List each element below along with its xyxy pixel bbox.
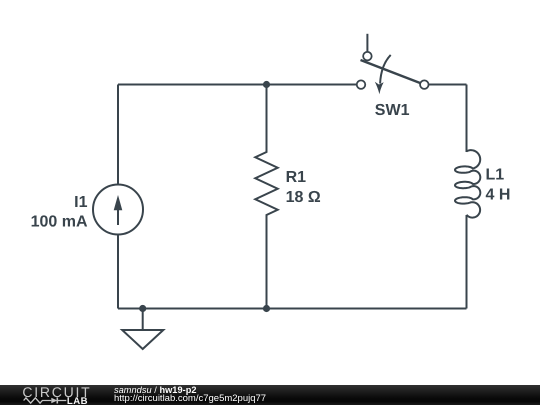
- logo resistor zigzag icon: [24, 398, 52, 403]
- switch SW1 stub: [366, 34, 368, 52]
- wire right vertical upper: [466, 85, 468, 153]
- svg-text:R1: R1: [286, 169, 307, 186]
- current source I1 circle: [93, 185, 143, 235]
- logo wire to LAB: [57, 400, 66, 402]
- logo diode triangle: [51, 398, 57, 404]
- svg-text:100 mA: 100 mA: [31, 214, 88, 231]
- svg-text:L1: L1: [486, 167, 505, 184]
- junction dot ground: [139, 305, 146, 312]
- wire switch right to corner: [429, 84, 467, 86]
- wire left vertical: [117, 85, 119, 309]
- svg-text:4 H: 4 H: [486, 187, 511, 204]
- footer bar: [0, 385, 540, 405]
- junction dot resistor bottom: [263, 305, 270, 312]
- svg-text:I1: I1: [74, 194, 87, 211]
- ground triangle: [122, 330, 163, 349]
- current source I1 arrowhead: [114, 195, 123, 210]
- inductor L1: [455, 150, 480, 217]
- switch SW1 motion arrowhead: [375, 82, 384, 94]
- svg-text:LAB: LAB: [67, 396, 88, 405]
- switch SW1 motion arc: [380, 55, 391, 84]
- logo diode cathode bar: [56, 398, 58, 404]
- switch SW1 terminal left: [357, 80, 366, 89]
- current source I1 arrow shaft: [117, 208, 119, 225]
- wire top horizontal: [118, 84, 357, 86]
- footer title text: [114, 384, 266, 404]
- CircuitLab logo: [18, 383, 102, 405]
- resistor R1: [255, 85, 277, 309]
- junction dot top: [263, 81, 270, 88]
- wire right vertical lower: [466, 215, 468, 309]
- switch SW1 terminal top: [363, 52, 372, 61]
- svg-text:SW1: SW1: [375, 102, 410, 119]
- ground wire: [142, 309, 144, 330]
- switch SW1 blade: [361, 60, 425, 85]
- switch SW1 terminal right: [420, 80, 429, 89]
- svg-text:18 Ω: 18 Ω: [286, 189, 321, 206]
- wire bottom horizontal: [118, 308, 467, 310]
